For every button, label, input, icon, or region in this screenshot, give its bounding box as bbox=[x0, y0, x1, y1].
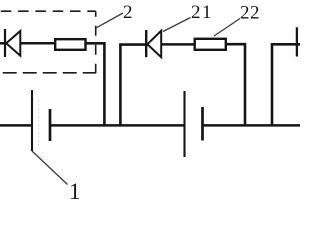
svg-text:21: 21 bbox=[191, 2, 213, 23]
svg-text:1: 1 bbox=[69, 179, 81, 200]
svg-text:22: 22 bbox=[240, 3, 260, 24]
svg-text:2: 2 bbox=[123, 2, 133, 23]
